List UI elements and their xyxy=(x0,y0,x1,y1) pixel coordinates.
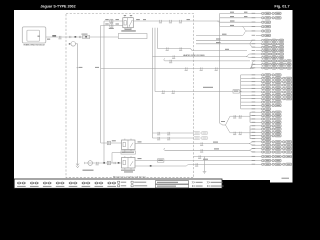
legend connector icons xyxy=(17,182,25,184)
relay R1 pin stubs + numbers xyxy=(125,16,131,29)
ground stub x=204.5 xyxy=(204,157,206,172)
svg-text:HEATED WINDOW MODULE: HEATED WINDOW MODULE xyxy=(23,43,45,46)
rows 54/57.4 from row56.5 brace xyxy=(246,54,250,57)
junction dot on W1 xyxy=(75,36,77,38)
wire row y=60.9 xyxy=(165,60,250,62)
wire row y=48.5 xyxy=(158,48,191,50)
legend middle entries xyxy=(118,181,120,183)
wire row 138 to connector pills xyxy=(153,137,194,139)
legend panel background xyxy=(14,179,222,189)
fan bus B2 (row 91.5) xyxy=(240,75,242,109)
relay R2 label box xyxy=(121,151,136,154)
wire row y=68.5 rung xyxy=(101,68,250,70)
legend boxed entries xyxy=(156,181,189,184)
relay R1 label box xyxy=(118,34,147,39)
merge row 31 xyxy=(242,27,247,36)
splice S1 box on W1 xyxy=(83,35,90,38)
wire row 156.5 xyxy=(194,156,257,158)
splice S2 box xyxy=(233,90,239,93)
wire row 40.3 feed xyxy=(196,39,253,41)
pin ticks on W1 xyxy=(70,36,71,38)
wire row y=91.5 xyxy=(155,91,233,93)
W2 end terminal xyxy=(76,164,79,168)
bus vertical from R1 pin85 branch xyxy=(100,25,102,143)
module U1 (heated window control module) xyxy=(22,27,46,43)
svg-text:HEATED WINDOW FEED: HEATED WINDOW FEED xyxy=(183,54,205,57)
connector C1 on W1 xyxy=(59,36,61,38)
wire W1 gauge label xyxy=(52,35,56,36)
connector marks on W3 xyxy=(160,20,162,22)
wire to R1 pin 86 xyxy=(104,20,123,22)
svg-text:Heated rear window and mirrors: Heated rear window and mirrors xyxy=(113,175,147,178)
splice S3 box xyxy=(158,159,164,162)
relay R3 box xyxy=(122,158,136,169)
svg-text:Fig. 01.7: Fig. 01.7 xyxy=(274,4,289,8)
long bus down from W3 branch xyxy=(219,21,221,123)
fuse F1 (circle component) xyxy=(71,42,76,47)
page number panel xyxy=(270,176,293,183)
relay R2 box xyxy=(122,140,136,150)
branch to fan C1 xyxy=(226,116,251,125)
W3 junction wiggle xyxy=(217,21,220,22)
heater element M1 circle xyxy=(88,161,93,166)
wire row 133 to connector pills xyxy=(153,132,194,134)
loop from R2 to R3 xyxy=(112,151,125,163)
rows 50.6 xyxy=(252,49,256,52)
pin label xyxy=(47,39,50,40)
fan C2 xyxy=(249,126,251,139)
connector C2 (stacked) xyxy=(110,19,113,23)
wire row 150.3 xyxy=(165,149,249,151)
branch to fan C2 xyxy=(226,125,251,133)
wire row y=56.5 xyxy=(153,56,247,58)
rows 60.9/64.4/67.9 from row68.5 brace xyxy=(250,61,254,68)
wire W1 module output xyxy=(46,36,119,38)
R3 lower output to row 164.3 xyxy=(135,165,186,167)
wire labels at R1 inputs xyxy=(105,19,108,20)
rows 40.3/43.8/47.2 from brace xyxy=(196,43,249,45)
vertical feeds below R1 xyxy=(157,28,159,49)
R2 output wire xyxy=(135,143,249,145)
svg-text:Jaguar S-TYPE 2002: Jaguar S-TYPE 2002 xyxy=(40,4,75,8)
legend box frame xyxy=(14,179,222,188)
ground label near W2 terminal xyxy=(83,170,94,171)
fan C1 xyxy=(249,112,251,122)
wire row 163 into R3 xyxy=(85,162,122,164)
fan bus A (from W3) xyxy=(219,13,221,26)
wire to R1 pin 85 xyxy=(101,24,123,26)
relay R1 box xyxy=(123,18,134,28)
row 35.4 xyxy=(196,34,242,36)
R3 output wire y=160.6 xyxy=(135,160,256,162)
wire from F1 xyxy=(76,43,78,45)
wire W2 vertical feed xyxy=(77,44,79,166)
relay R1 label text xyxy=(125,29,132,30)
wire W3: R1 output xyxy=(133,20,219,22)
rows 141.8/145.2 pills xyxy=(249,142,253,145)
fuse box dashed boundary xyxy=(66,14,194,178)
bus vertical from R1 pin86 branch xyxy=(103,21,105,163)
page background xyxy=(14,10,293,180)
tick label on W2 xyxy=(77,67,79,69)
wire to R2 pin (y=143) xyxy=(101,142,122,144)
legend right entries xyxy=(192,181,195,183)
relay R3 label xyxy=(121,170,135,171)
